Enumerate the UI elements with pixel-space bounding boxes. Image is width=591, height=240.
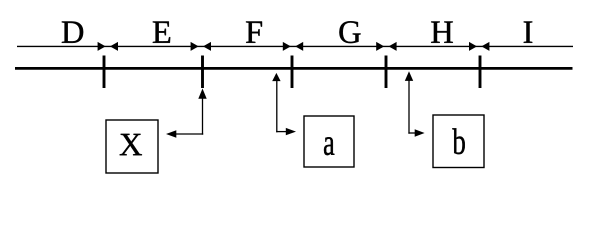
tick 2 (E/F) xyxy=(201,56,204,89)
tick 3 (F/G) xyxy=(291,56,294,89)
thick baseline (number line) xyxy=(15,67,573,70)
box b xyxy=(433,115,484,168)
box X xyxy=(106,120,158,173)
connector to b (elbow arrow, up-arrow at line, right-arrow toward box b) xyxy=(405,71,425,136)
arrow pair F/G xyxy=(283,42,303,51)
connector to a (elbow arrow, up-arrow at line, right-arrow toward box a) xyxy=(272,73,296,135)
tick 4 (G/H) xyxy=(385,56,388,89)
arrow pair G/H xyxy=(376,42,396,51)
box a xyxy=(304,116,354,167)
label G xyxy=(339,21,360,43)
label X xyxy=(120,134,142,155)
label F xyxy=(246,21,262,42)
top dimension line xyxy=(17,45,573,47)
tick 5 (H/I) xyxy=(479,56,482,89)
label H xyxy=(431,21,453,42)
label I xyxy=(524,21,533,42)
tick 1 (D/E) xyxy=(103,56,106,89)
label E xyxy=(153,21,170,42)
arrow pair H/I xyxy=(469,42,489,51)
label a xyxy=(324,137,334,155)
arrow pair D/E xyxy=(98,42,118,51)
arrow pair E/F xyxy=(191,42,211,51)
label b xyxy=(452,128,465,154)
connector to X (elbow arrow, up-arrow at tick E/F, left-arrow into box X) xyxy=(166,89,207,138)
label D xyxy=(62,21,83,42)
